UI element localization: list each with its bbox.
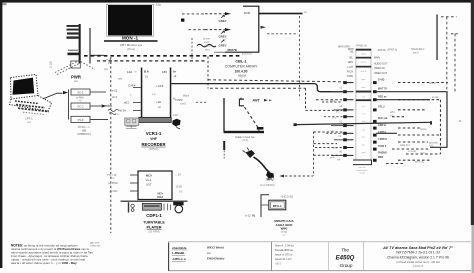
svg-text:t-ahw ra/y: t-ahw ra/y <box>90 245 101 248</box>
svg-text:VCR1-1: VCR1-1 <box>146 131 162 136</box>
svg-text:CVBS R: CVBS R <box>378 138 387 141</box>
svg-text:2.35: 2.35 <box>49 61 53 68</box>
player left bracket <box>128 202 129 212</box>
svg-text:wxx: wxx <box>118 77 123 80</box>
svg-text:OUT: OUT <box>146 182 152 186</box>
solid stub right <box>436 15 437 61</box>
VCR left extra clusters <box>105 89 118 108</box>
side note <box>90 242 101 248</box>
wall plate dashed outline <box>55 61 95 75</box>
svg-text:gn 0: gn 0 <box>330 157 335 159</box>
adapter box 3 <box>71 116 90 122</box>
plug tail <box>176 126 180 128</box>
wire long row 121 <box>296 122 431 124</box>
dashed drop at 192 <box>191 38 193 60</box>
svg-text:(NTSC): (NTSC) <box>149 147 158 151</box>
panel strip rails <box>355 49 357 160</box>
svg-text:V07>: V07> <box>157 192 164 196</box>
svg-text:aux: aux <box>74 80 79 83</box>
svg-text:w-in: w-in <box>205 48 210 51</box>
VCR right outside labels <box>173 98 187 117</box>
antenna cable dashes <box>245 107 259 128</box>
right row text clusters <box>390 83 438 164</box>
svg-text:al/fm: al/fm <box>390 112 395 114</box>
thick jack bar <box>224 131 265 133</box>
CDP caption <box>143 213 165 233</box>
svg-text:rr-1: rr-1 <box>105 104 110 108</box>
svg-text:GHSBZ/24 0: GHSBZ/24 0 <box>77 133 91 136</box>
svg-text:st 2/0: st 2/0 <box>359 172 365 175</box>
svg-text:R-CH: R-CH <box>347 71 353 74</box>
svg-text:e4: e4 <box>337 159 340 161</box>
svg-text:RFU-1: RFU-1 <box>273 204 282 208</box>
svg-text:L.MNaBL: L.MNaBL <box>172 251 185 255</box>
wire laptop to adapter <box>43 93 63 99</box>
adapter mid note <box>76 98 85 103</box>
CDP left stubs <box>130 175 138 191</box>
dashed vertical right A <box>446 17 448 118</box>
svg-text:CDP1-1: CDP1-1 <box>146 213 162 218</box>
annotation italic <box>203 37 211 44</box>
svg-text:→ 3A: → 3A <box>175 173 182 176</box>
title table bottom line <box>168 270 471 272</box>
right end tick row122 <box>430 121 432 124</box>
svg-text:a0: a0 <box>158 106 161 109</box>
svg-text:a-00 b-01: a-00 b-01 <box>242 54 253 56</box>
svg-text:~ a ~: ~ a ~ <box>77 101 83 103</box>
recorder VCR1-1 left rail <box>141 68 143 119</box>
monitor stand <box>104 40 158 42</box>
svg-text:w/ MHz: w/ MHz <box>76 98 85 100</box>
svg-text:out: out <box>362 95 365 98</box>
svg-text:sys b: sys b <box>413 52 419 55</box>
svg-text:AC-1: AC-1 <box>78 90 84 94</box>
svg-text:Issue d: 573 w: Issue d: 573 w <box>275 253 292 257</box>
VCR top labels <box>127 70 177 79</box>
adapter rail <box>68 90 70 120</box>
adapter box 1 <box>71 89 90 95</box>
svg-text:GRN: GRN <box>348 61 354 64</box>
extra row smudges <box>330 100 340 159</box>
svg-text:aud R: aud R <box>361 71 367 73</box>
svg-text:(On-a): (On-a) <box>127 47 135 51</box>
svg-text:PHONO: PHONO <box>378 151 387 154</box>
svg-text:Inc: Inc <box>207 251 211 255</box>
right solid rows <box>296 92 447 148</box>
player right unit <box>173 202 183 206</box>
CDP right labels <box>175 173 184 193</box>
svg-text:TMPR: TMPR <box>175 98 183 102</box>
right dashed rows <box>386 83 448 164</box>
svg-text:GREY: GREY <box>219 43 227 47</box>
svg-text:Gable tv feed w/e: Gable tv feed w/e <box>235 136 255 139</box>
CDP inside labels <box>146 173 164 199</box>
rfu corner wire <box>261 195 269 217</box>
left end tick row121 <box>294 123 297 126</box>
svg-text:12A: 12A <box>127 70 132 74</box>
panel left labels <box>347 48 355 78</box>
svg-text:sys-b (2): sys-b (2) <box>415 162 424 164</box>
arrow box2 <box>102 104 107 107</box>
svg-text:tape: tape <box>361 78 366 81</box>
border right <box>471 0 474 225</box>
svg-text:ANT: ANT <box>252 99 261 103</box>
svg-text:to spk: to spk <box>432 96 439 99</box>
svg-text:180: 180 <box>162 70 167 74</box>
svg-text:d-0: d-0 <box>179 192 183 194</box>
svg-text:VIDEO IN: VIDEO IN <box>374 67 385 70</box>
svg-text:mon: mon <box>361 87 366 89</box>
svg-text:A0 002: A0 002 <box>110 190 119 193</box>
svg-text:GRN in: GRN in <box>378 124 387 127</box>
svg-text:sat: sat <box>362 129 365 132</box>
svg-text:RED an: RED an <box>378 96 387 99</box>
phono cable curve <box>254 157 270 173</box>
antenna terminal bars <box>67 25 79 39</box>
converter CBL-1 box <box>214 6 259 52</box>
border left <box>0 0 2 268</box>
svg-text:2-2004-05: 2-2004-05 <box>413 266 424 268</box>
VCR mini grid <box>126 125 137 128</box>
svg-text:PWR: PWR <box>71 75 81 80</box>
phono plug end <box>266 172 274 179</box>
svg-text:a/v: a/v <box>304 11 308 14</box>
svg-text:in 3: in 3 <box>362 114 366 116</box>
dashed arrow below CBL out <box>261 26 299 34</box>
border top <box>0 0 474 3</box>
arrow into rail <box>63 91 68 94</box>
svg-text:DC-2: DC-2 <box>77 105 84 109</box>
divider 2 <box>271 242 273 271</box>
svg-text:MAIN: MAIN <box>374 57 380 60</box>
wire box1 right <box>90 91 106 93</box>
svg-text:WXYZ World: WXYZ World <box>207 245 224 249</box>
dashed top right corner <box>441 16 457 18</box>
svg-text:n-2: n-2 <box>282 235 286 237</box>
svg-text:Group: Group <box>340 263 353 268</box>
svg-text:a2: a2 <box>339 106 342 108</box>
svg-text:PS-3: PS-3 <box>78 118 84 122</box>
wall box <box>71 61 81 68</box>
VCR plug blob <box>172 119 180 127</box>
svg-text:(w): (w) <box>104 68 108 71</box>
player shelf line <box>121 201 188 202</box>
plug glyphs left column <box>343 81 353 157</box>
mast wire 2 <box>89 28 90 64</box>
CBL grey arrows <box>221 15 225 42</box>
svg-text:termination: termination <box>357 169 369 172</box>
svg-text:RECORDER: RECORDER <box>142 142 166 147</box>
svg-text:+0: +0 <box>174 75 177 78</box>
svg-text:GREY: GREY <box>219 19 227 23</box>
meta rows <box>275 243 294 265</box>
dashed drop at 208 <box>207 57 209 89</box>
svg-text:~(NC2)-3Ω: ~(NC2)-3Ω <box>280 195 293 199</box>
svg-text:(outw): (outw) <box>420 128 427 131</box>
panel strip bars <box>356 49 371 101</box>
jack bar caption <box>235 136 255 142</box>
title table top line <box>168 241 471 243</box>
svg-text:chantilLfa.: chantilLfa. <box>172 246 187 250</box>
svg-text:VA-2: VA-2 <box>146 178 152 182</box>
svg-text:1FW: 1FW <box>110 178 116 180</box>
svg-text:WXYZ/TMA-1 Ta-d 1.03 L-33: WXYZ/TMA-1 Ta-d 1.03 L-33 <box>396 250 440 254</box>
dashed vertical right B <box>454 34 456 92</box>
svg-text:WHT 75: WHT 75 <box>378 88 387 91</box>
svg-text:COMPUTER ARRAY: COMPUTER ARRAY <box>225 65 258 69</box>
svg-text:VIDEO OUT: VIDEO OUT <box>374 72 388 75</box>
svg-text:CBL-1: CBL-1 <box>235 59 246 63</box>
VCR extra smudges <box>104 68 190 109</box>
wire row 133 <box>376 132 397 134</box>
ANT label <box>252 99 273 103</box>
svg-text:YEL: YEL <box>349 51 354 54</box>
dash mark corner <box>451 33 458 35</box>
svg-text:v1: v1 <box>340 88 343 90</box>
svg-text:RVB: RVB <box>244 11 250 15</box>
svg-text:Deradt-dFM au: Deradt-dFM au <box>275 248 294 252</box>
dashed wire MON to CBL row2 <box>189 29 206 31</box>
svg-text:9+: 9+ <box>173 70 177 74</box>
CBL inside labels <box>219 11 253 56</box>
wire CBL to right <box>259 13 303 15</box>
svg-text:aud-l: aud-l <box>330 100 335 102</box>
svg-text:a-22: a-22 <box>112 89 118 93</box>
svg-text:~Wxxe: ~Wxxe <box>204 43 213 47</box>
svg-text:t/e 0: t/e 0 <box>112 95 118 99</box>
VCR caption <box>142 131 166 151</box>
antenna plug <box>257 127 264 130</box>
divider 4 <box>363 242 365 271</box>
svg-text:cd 2: cd 2 <box>332 117 337 119</box>
svg-text:main l/r 2: main l/r 2 <box>400 144 411 147</box>
svg-text:video: video <box>361 53 367 55</box>
svg-text:Channa Kit Diagram, version 2.: Channa Kit Diagram, version 2.1 7′ Pro 9… <box>387 255 449 259</box>
player platter <box>175 205 183 213</box>
VCR body bar <box>139 117 171 122</box>
svg-text:MPU: MPU <box>267 178 275 182</box>
svg-text:E450Q: E450Q <box>336 255 355 261</box>
dashed corner to panel <box>316 99 342 101</box>
svg-text:PLAYER: PLAYER <box>146 226 161 230</box>
adapter box 2 <box>71 103 90 109</box>
svg-text:rear av: rear av <box>359 166 367 169</box>
svg-text:a01: a01 <box>124 100 129 104</box>
svg-text:Wg-a: Wg-a <box>183 95 190 98</box>
svg-text:V): V) <box>252 213 255 217</box>
wire to right <box>91 55 105 56</box>
svg-text:s: s <box>459 119 461 123</box>
dashed link phono <box>280 175 314 178</box>
svg-text:p.12: p.12 <box>173 114 178 117</box>
svg-text:BLK out: BLK out <box>378 117 387 120</box>
wire out row 92 <box>376 92 447 148</box>
svg-text:aux: aux <box>362 137 366 139</box>
svg-text:E450 Effektiv: E450 Effektiv <box>207 256 225 260</box>
svg-text:a-2: a-2 <box>27 121 31 124</box>
svg-text:(a-up): (a-up) <box>281 231 288 234</box>
svg-text:PR#7B: PR#7B <box>228 48 237 52</box>
svg-text:YEL: YEL <box>348 56 353 59</box>
player knobs <box>131 204 134 211</box>
laptop LT-1 <box>10 75 52 115</box>
svg-text:TAPE: TAPE <box>347 75 353 78</box>
VCR mid labels <box>115 83 164 115</box>
dashed drop at 103.5 <box>110 57 112 233</box>
svg-text:MCA: MCA <box>146 173 152 177</box>
CDP left pin labels <box>107 174 118 193</box>
divider 1 <box>168 243 170 271</box>
speaker note <box>387 48 425 54</box>
svg-text:12-v: 12-v <box>240 75 246 78</box>
svg-text:A0 0A: A0 0A <box>119 110 126 113</box>
svg-text:VHF: VHF <box>150 137 157 141</box>
svg-text:10 kΩ: 10 kΩ <box>176 185 183 188</box>
VCR cassette block <box>125 118 139 125</box>
svg-text:aud L: aud L <box>361 61 367 63</box>
wavy mark <box>108 110 119 112</box>
svg-text:J.Mfh.J..a: J.Mfh.J..a <box>172 257 186 261</box>
antenna cable connector <box>239 98 244 106</box>
player CDP1-1 box <box>138 171 172 200</box>
svg-text:The: The <box>341 248 349 253</box>
svg-text:ph: ph <box>362 144 365 146</box>
rfu stub <box>261 204 269 206</box>
panel strip inner text <box>361 53 367 154</box>
svg-text:o: o <box>130 94 132 97</box>
svg-text:d0: d0 <box>339 152 342 154</box>
divider 3 <box>328 242 330 271</box>
dashed bus upper <box>84 55 240 57</box>
svg-text:TURNTABLE: TURNTABLE <box>143 221 165 225</box>
left tail labels <box>337 88 342 162</box>
svg-text:+CXF: +CXF <box>156 84 164 88</box>
svg-text:ph-a: ph-a <box>333 148 338 150</box>
RFU-1 box <box>269 200 286 210</box>
svg-text:in: in <box>135 70 138 73</box>
right row labels <box>374 49 388 159</box>
strip bottom note <box>357 166 369 175</box>
monitor MON-1 <box>107 4 154 40</box>
svg-text:t 00-2: t 00-2 <box>275 263 282 266</box>
svg-text:was/3: was/3 <box>180 103 187 105</box>
svg-text:12g: 12g <box>156 3 161 7</box>
svg-text:AV TV aharna Saca Mad Ph/Z aV: AV TV aharna Saca Mad Ph/Z aV Ra’ 7″ <box>382 246 453 250</box>
dashed wire mid <box>208 80 344 82</box>
svg-text:(a-hm): (a-hm) <box>429 83 436 85</box>
svg-text:AUDIO OUT: AUDIO OUT <box>374 62 388 65</box>
wire box2 right <box>90 105 101 107</box>
mast wire <box>79 24 81 64</box>
monitor caption <box>120 43 143 51</box>
svg-text:b/w: b/w <box>336 111 340 113</box>
dashed wire MON to CBL row1 <box>181 14 205 22</box>
wire L to CBL jack <box>223 98 225 131</box>
svg-text:gnd: gnd <box>108 62 113 65</box>
svg-text:(+) PWR: (+) PWR <box>108 182 118 185</box>
svg-text:(33 RPM): (33 RPM) <box>148 229 160 233</box>
svg-text:B A: B A <box>144 70 150 74</box>
svg-text:+a9: +a9 <box>156 100 161 104</box>
svg-text:m ta (a): m ta (a) <box>408 150 416 153</box>
CBL pin arrow rows <box>205 12 231 31</box>
svg-text:CXF#: CXF# <box>128 83 136 87</box>
svg-text:aaa ta t aft asta t datna span: aaa ta t aft asta t datna spant t t - y … <box>11 261 77 265</box>
rfu caption block <box>274 219 294 237</box>
svg-text:(ch 3): (ch 3) <box>242 140 248 142</box>
svg-text:W.: W. <box>173 97 176 100</box>
top labels above panel <box>338 44 368 48</box>
svg-text:dvd: dvd <box>362 121 366 123</box>
title text <box>382 246 453 268</box>
dashed vertical x313 <box>313 132 315 177</box>
stub below corner <box>223 141 225 150</box>
mast tick <box>68 50 78 51</box>
wire VCR out top <box>171 84 344 92</box>
mid dashed rows <box>306 88 344 155</box>
player ticks <box>164 204 171 211</box>
svg-text:in 2: in 2 <box>362 106 366 108</box>
adapter caption <box>77 126 91 136</box>
wavy cable <box>197 44 216 47</box>
svg-text:AUX IN: AUX IN <box>378 49 386 52</box>
left row tails <box>331 92 344 156</box>
svg-text:Apv/s W. Ld-7: Apv/s W. Ld-7 <box>275 257 292 261</box>
svg-text:MON -1: MON -1 <box>122 35 139 40</box>
dashed bus lower <box>97 60 206 62</box>
svg-text:hi-fi/aud media center rev b -: hi-fi/aud media center rev b - 2/0 fed <box>396 260 440 264</box>
company rows <box>207 245 225 260</box>
svg-text:PANEL AV: PANEL AV <box>356 44 368 47</box>
phono cable plug <box>246 150 256 158</box>
VCR left pin stubs <box>133 88 141 111</box>
svg-text:L-CH: L-CH <box>347 66 353 69</box>
svg-text:GREY: GREY <box>219 35 227 39</box>
CBL caption <box>225 59 258 77</box>
svg-text:S-VID: S-VID <box>378 79 385 82</box>
player deck <box>142 203 161 210</box>
signature rows <box>172 246 187 261</box>
dashed drop from CBL wire <box>299 16 301 99</box>
svg-text:Num A: 1-34 t/a: Num A: 1-34 t/a <box>275 243 294 247</box>
svg-text:(SPKR A): (SPKR A) <box>387 49 397 52</box>
svg-text:(gnd aa): (gnd aa) <box>429 142 438 144</box>
panel strip caption bracket <box>353 160 372 165</box>
wire box3 right <box>90 119 108 121</box>
svg-text:(A-2-OF/NC): (A-2-OF/NC) <box>260 183 275 187</box>
right mid label <box>400 96 439 155</box>
laptop caption <box>25 117 33 124</box>
svg-text:at low: at low <box>203 37 211 41</box>
recorder VCR1-1 right rail <box>170 68 172 119</box>
svg-text:gnd: gnd <box>362 152 366 154</box>
svg-text:TT+ / 36: TT+ / 36 <box>107 174 117 177</box>
terminal dash <box>68 53 81 56</box>
svg-text:WHT/GRN: WHT/GRN <box>338 46 350 49</box>
svg-text:2212: 2212 <box>157 195 163 199</box>
svg-text:(+12: (+12 <box>245 213 251 217</box>
notes block <box>11 244 93 265</box>
svg-text:YEL 2: YEL 2 <box>378 106 385 109</box>
svg-text:TAPE 2: TAPE 2 <box>378 145 387 148</box>
wire out row 100 <box>376 99 430 101</box>
right plug glyphs <box>373 81 377 162</box>
left row tails dashed <box>315 102 343 148</box>
svg-text:Ch: Ch <box>145 75 149 78</box>
svg-text:gnd b: gnd b <box>420 152 427 155</box>
corner mark <box>3 3 7 5</box>
svg-text:MB#: MB# <box>378 156 384 159</box>
